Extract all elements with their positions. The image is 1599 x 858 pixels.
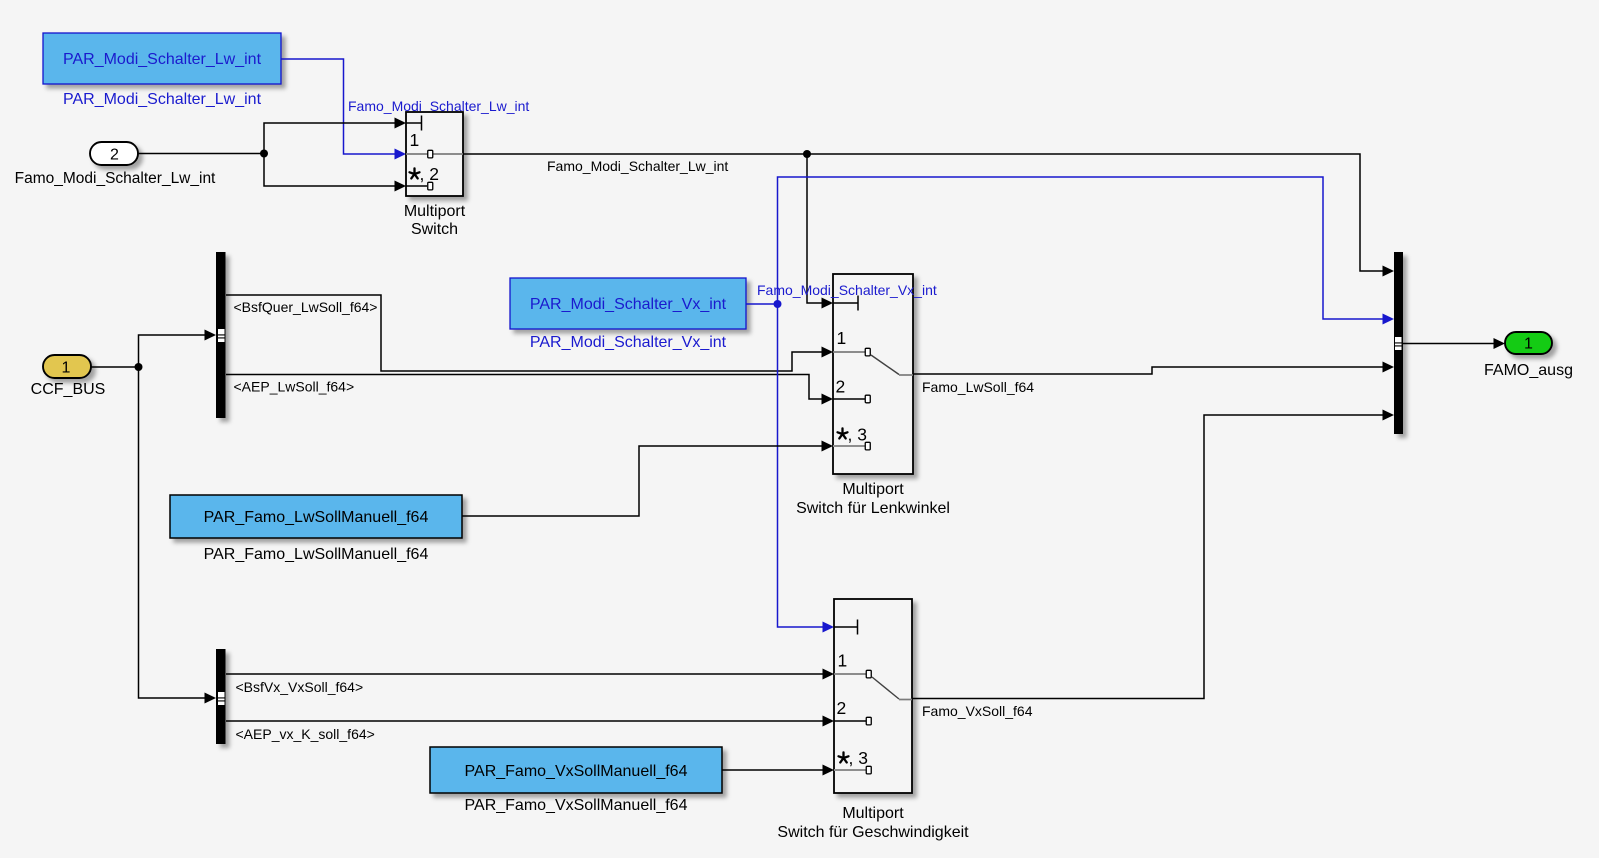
svg-text:Famo_VxSoll_f64: Famo_VxSoll_f64: [922, 703, 1033, 719]
wire PAR_Famo_VxSollManuell_f64 to Geschwindigkeit port *,3: [722, 765, 834, 776]
control indicator: [834, 626, 858, 628]
port 3 icon: [866, 766, 871, 774]
wire (blue) PAR_Modi_Schalter_Vx_int output: [746, 303, 778, 305]
port *,3 label: [838, 428, 848, 438]
svg-text:PAR_Modi_Schalter_Vx_int: PAR_Modi_Schalter_Vx_int: [530, 296, 727, 313]
svg-text:Switch für Lenkwinkel: Switch für Lenkwinkel: [796, 500, 950, 517]
wire junction to Bus Selector 1: [139, 330, 217, 368]
svg-text:, 2: , 2: [420, 164, 439, 184]
wire (blue) junction down to Geschwindigkeit control port: [778, 304, 835, 633]
wire junction to Lenkwinkel switch control port: [807, 154, 833, 309]
svg-text:Famo_Modi_Schalter_Lw_int: Famo_Modi_Schalter_Lw_int: [547, 158, 728, 174]
multiport switch U3 (Multiport Switch für Geschwindigkeit): [834, 599, 912, 793]
junction dot at (807,154): [803, 150, 811, 158]
wire U2 output to Mux port 3: [913, 362, 1394, 375]
inport 2 Famo_Modi_Schalter_Lw_int: [90, 142, 138, 165]
svg-text:<AEP_vx_K_soll_f64>: <AEP_vx_K_soll_f64>: [236, 726, 375, 742]
port 1 icon: [865, 348, 870, 356]
port 2 icon: [865, 395, 870, 403]
wire junction to Bus Selector 2: [139, 367, 217, 704]
junction dot at (264,154): [260, 150, 268, 158]
multiport switch U1 (Multiport Switch): [406, 112, 463, 196]
bus selector 1: [216, 252, 226, 418]
svg-text:2: 2: [110, 147, 119, 164]
svg-text:Famo_Modi_Schalter_Vx_int: Famo_Modi_Schalter_Vx_int: [757, 282, 937, 298]
port 3 line: [833, 445, 865, 447]
svg-text:PAR_Modi_Schalter_Lw_int: PAR_Modi_Schalter_Lw_int: [63, 51, 262, 68]
wire bus selector 2 output <BsfVx_VxSoll_f64> to Geschwindigkeit port 1: [226, 669, 834, 680]
svg-text:PAR_Famo_LwSollManuell_f64: PAR_Famo_LwSollManuell_f64: [204, 509, 429, 526]
svg-text:1: 1: [837, 328, 847, 348]
svg-text:1: 1: [838, 651, 848, 671]
control indicator: [406, 122, 422, 124]
port 1 icon: [866, 670, 871, 678]
svg-text:PAR_Famo_VxSollManuell_f64: PAR_Famo_VxSollManuell_f64: [465, 797, 688, 814]
port 2 line: [834, 720, 866, 722]
port *,3 label: [839, 752, 849, 762]
svg-text:Switch für Geschwindigkeit: Switch für Geschwindigkeit: [777, 824, 969, 841]
wire mux output to outport: [1403, 338, 1505, 349]
port 1 icon: [428, 150, 433, 158]
mux block: [1394, 252, 1403, 434]
wire junction to Multiport Switch port *,2: [264, 154, 406, 192]
block PAR_Famo_LwSollManuell_f64: [170, 495, 462, 538]
block PAR_Famo_VxSollManuell_f64: [430, 747, 722, 793]
svg-text:Famo_LwSoll_f64: Famo_LwSoll_f64: [922, 379, 1034, 395]
wire U1 output to Mux port 1: [463, 154, 1394, 277]
junction dot (blue) at (777.5,304): [774, 300, 782, 308]
wire CCF_BUS to junction: [91, 366, 139, 368]
block PAR_Modi_Schalter_Vx_int: [510, 278, 746, 329]
wire bus selector 1 output <BsfQuer_LwSoll_f64> to Lenkwinkel port 1: [226, 295, 833, 371]
inport 1 CCF_BUS: [43, 355, 91, 378]
outport 1 FAMO_ausg: [1505, 332, 1552, 354]
port 2 line: [833, 398, 865, 400]
svg-text:Multiport: Multiport: [404, 203, 466, 220]
svg-text:2: 2: [836, 377, 846, 397]
svg-text:PAR_Famo_VxSollManuell_f64: PAR_Famo_VxSollManuell_f64: [465, 763, 688, 780]
port 2 icon: [428, 182, 433, 190]
multiport switch U2 (Multiport Switch für Lenkwinkel): [833, 274, 913, 474]
svg-text:<AEP_LwSoll_f64>: <AEP_LwSoll_f64>: [234, 379, 355, 395]
svg-text:1: 1: [62, 360, 71, 377]
svg-text:<BsfVx_VxSoll_f64>: <BsfVx_VxSoll_f64>: [236, 679, 364, 695]
svg-text:1: 1: [410, 130, 420, 150]
svg-text:PAR_Modi_Schalter_Vx_int: PAR_Modi_Schalter_Vx_int: [530, 334, 727, 351]
port 3 icon: [865, 442, 870, 450]
svg-text:Multiport: Multiport: [842, 805, 904, 822]
junction dot at (138.5,367): [135, 363, 143, 371]
svg-text:PAR_Modi_Schalter_Lw_int: PAR_Modi_Schalter_Lw_int: [63, 91, 262, 108]
svg-text:Multiport: Multiport: [842, 481, 904, 498]
wire bus selector 1 output <AEP_LwSoll_f64> to Lenkwinkel port 2: [226, 375, 833, 405]
switch arm diagonal: [871, 355, 899, 375]
wire U3 output to Mux port 4: [912, 410, 1394, 699]
svg-text:FAMO_ausg: FAMO_ausg: [1484, 362, 1573, 379]
svg-text:PAR_Famo_LwSollManuell_f64: PAR_Famo_LwSollManuell_f64: [204, 546, 429, 563]
port 1 through line: [406, 153, 463, 155]
wire inport 2 to junction: [138, 153, 264, 155]
svg-text:2: 2: [837, 698, 847, 718]
wire PAR_Famo_LwSollManuell_f64 to Lenkwinkel port *,3: [462, 441, 833, 517]
wire (blue) junction up to Mux port 2: [778, 177, 1395, 325]
port 1 line: [833, 351, 865, 353]
svg-text:, 3: , 3: [849, 748, 868, 768]
port 1 line: [834, 673, 866, 675]
port *,2 label: [410, 168, 420, 178]
control indicator: [833, 302, 858, 304]
svg-text:, 3: , 3: [848, 425, 867, 445]
wire bus selector 2 output <AEP_vx_K_soll_f64> to Geschwindigkeit port 2: [226, 716, 834, 727]
port 3 line: [834, 769, 866, 771]
block PAR_Modi_Schalter_Lw_int: [43, 33, 281, 84]
svg-text:CCF_BUS: CCF_BUS: [31, 381, 106, 398]
svg-text:<BsfQuer_LwSoll_f64>: <BsfQuer_LwSoll_f64>: [234, 299, 378, 315]
svg-text:Famo_Modi_Schalter_Lw_int: Famo_Modi_Schalter_Lw_int: [15, 170, 216, 187]
wire (blue) PAR_Modi_Schalter_Lw_int to Multiport Switch port 1: [281, 59, 406, 160]
wire junction to Multiport Switch control port: [264, 118, 406, 154]
port 2 line: [406, 185, 427, 187]
bus selector 2: [216, 649, 226, 744]
switch arm diagonal: [872, 677, 899, 699]
svg-text:1: 1: [1524, 336, 1533, 353]
port 2 icon: [866, 717, 871, 725]
svg-text:Switch: Switch: [411, 221, 458, 238]
